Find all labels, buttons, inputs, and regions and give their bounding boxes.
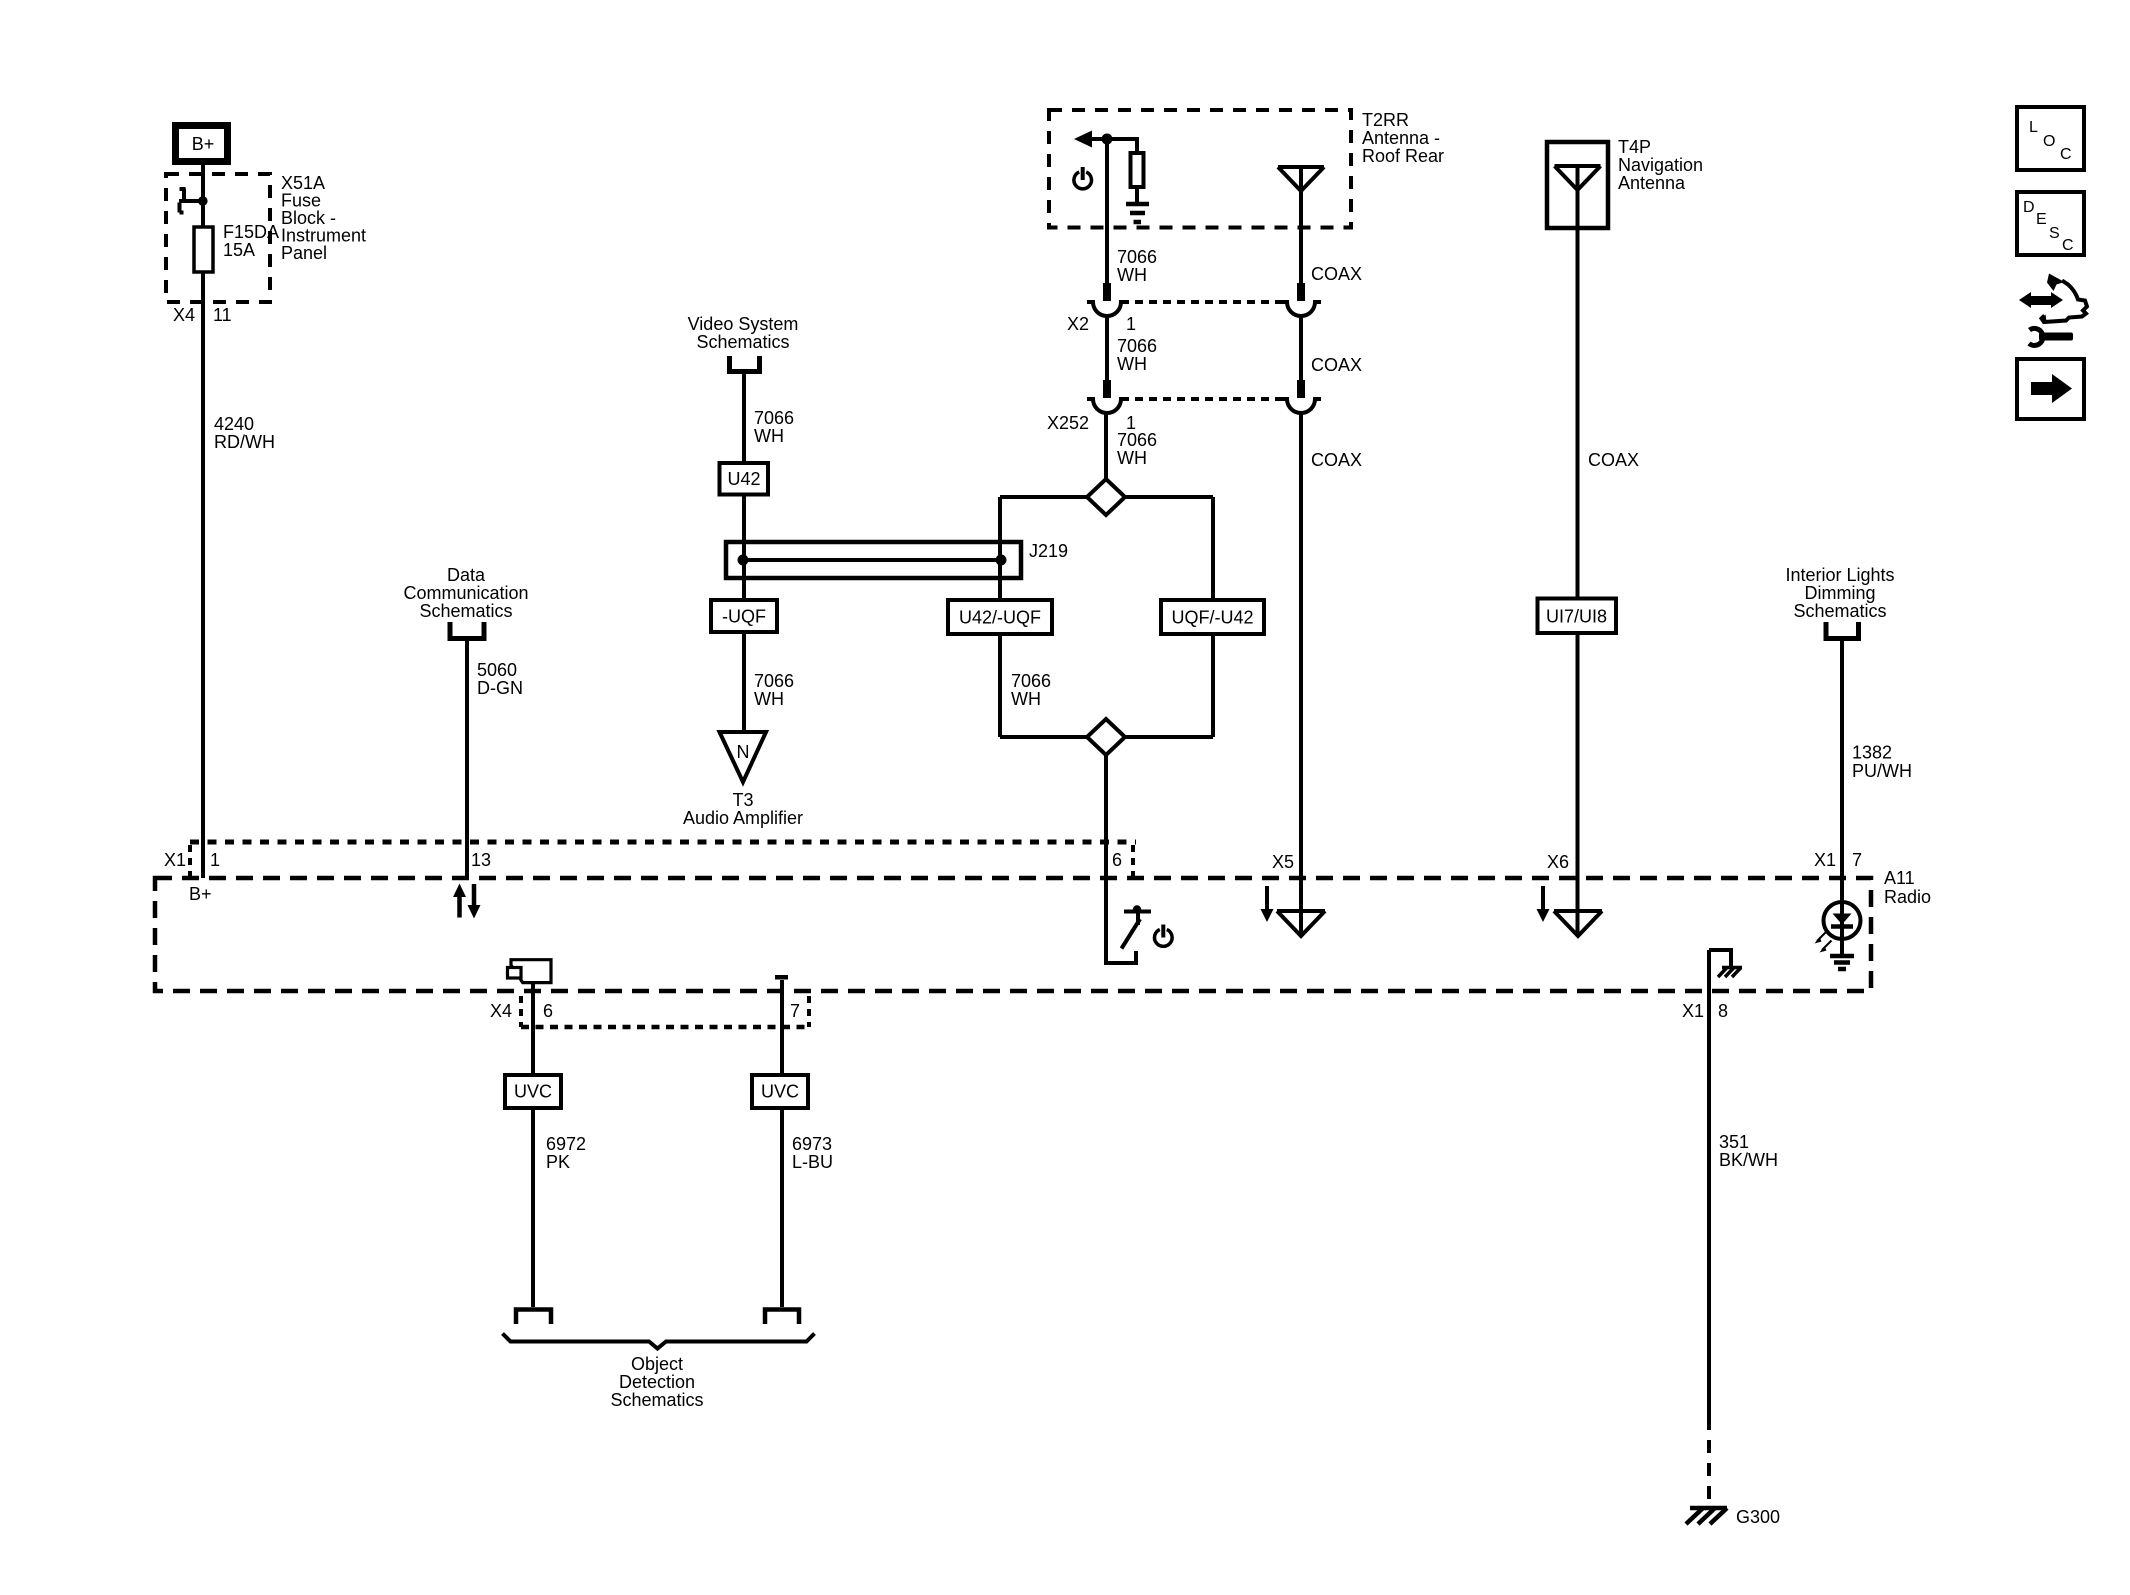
svg-text:WH: WH bbox=[754, 689, 784, 709]
svg-text:D-GN: D-GN bbox=[477, 678, 523, 698]
svg-text:11: 11 bbox=[213, 305, 232, 325]
svg-text:Video System: Video System bbox=[688, 314, 799, 334]
svg-text:E: E bbox=[2036, 211, 2047, 228]
svg-text:Navigation: Navigation bbox=[1618, 155, 1703, 175]
svg-text:L-BU: L-BU bbox=[792, 1152, 833, 1172]
svg-text:7: 7 bbox=[790, 1001, 800, 1021]
svg-text:Roof Rear: Roof Rear bbox=[1362, 146, 1444, 166]
svg-text:351: 351 bbox=[1719, 1132, 1749, 1152]
svg-text:UQF/-U42: UQF/-U42 bbox=[1171, 608, 1253, 628]
svg-text:X4: X4 bbox=[173, 305, 195, 325]
svg-text:Data: Data bbox=[447, 565, 486, 585]
svg-text:COAX: COAX bbox=[1311, 355, 1362, 375]
svg-text:UVC: UVC bbox=[761, 1082, 799, 1102]
svg-text:X1: X1 bbox=[164, 850, 186, 870]
svg-text:T2RR: T2RR bbox=[1362, 110, 1409, 130]
svg-text:8: 8 bbox=[1718, 1001, 1728, 1021]
svg-text:WH: WH bbox=[1117, 354, 1147, 374]
svg-text:7066: 7066 bbox=[754, 408, 794, 428]
svg-text:Interior Lights: Interior Lights bbox=[1785, 565, 1894, 585]
svg-text:15A: 15A bbox=[223, 240, 255, 260]
svg-text:D: D bbox=[2023, 199, 2035, 216]
svg-text:COAX: COAX bbox=[1311, 264, 1362, 284]
svg-text:U42/-UQF: U42/-UQF bbox=[959, 608, 1041, 628]
svg-text:6973: 6973 bbox=[792, 1134, 832, 1154]
svg-text:UI7/UI8: UI7/UI8 bbox=[1546, 607, 1607, 627]
svg-text:6972: 6972 bbox=[546, 1134, 586, 1154]
svg-text:7066: 7066 bbox=[1117, 247, 1157, 267]
svg-text:7066: 7066 bbox=[1011, 671, 1051, 691]
svg-text:T3: T3 bbox=[732, 790, 753, 810]
svg-text:1: 1 bbox=[210, 850, 220, 870]
svg-text:WH: WH bbox=[1117, 265, 1147, 285]
svg-text:PU/WH: PU/WH bbox=[1852, 761, 1912, 781]
svg-text:C: C bbox=[2060, 146, 2072, 163]
svg-text:X2: X2 bbox=[1067, 314, 1089, 334]
svg-text:UVC: UVC bbox=[514, 1082, 552, 1102]
svg-text:6: 6 bbox=[543, 1001, 553, 1021]
svg-text:G300: G300 bbox=[1736, 1507, 1780, 1527]
svg-text:7: 7 bbox=[1852, 850, 1862, 870]
svg-text:Detection: Detection bbox=[619, 1372, 695, 1392]
svg-text:Schematics: Schematics bbox=[1793, 601, 1886, 621]
svg-text:7066: 7066 bbox=[754, 671, 794, 691]
svg-text:COAX: COAX bbox=[1311, 450, 1362, 470]
svg-text:Schematics: Schematics bbox=[610, 1390, 703, 1410]
svg-text:A11: A11 bbox=[1884, 868, 1915, 888]
svg-text:Audio Amplifier: Audio Amplifier bbox=[683, 808, 803, 828]
svg-text:B+: B+ bbox=[189, 884, 212, 904]
svg-text:X6: X6 bbox=[1547, 852, 1569, 872]
svg-text:WH: WH bbox=[1011, 689, 1041, 709]
svg-text:Dimming: Dimming bbox=[1804, 583, 1875, 603]
svg-text:13: 13 bbox=[471, 850, 491, 870]
svg-text:Schematics: Schematics bbox=[696, 332, 789, 352]
svg-text:T4P: T4P bbox=[1618, 137, 1651, 157]
svg-text:Panel: Panel bbox=[281, 243, 327, 263]
svg-text:Object: Object bbox=[631, 1354, 683, 1374]
svg-text:Antenna -: Antenna - bbox=[1362, 128, 1440, 148]
svg-text:BK/WH: BK/WH bbox=[1719, 1150, 1778, 1170]
svg-text:1: 1 bbox=[1126, 314, 1136, 334]
svg-text:6: 6 bbox=[1112, 850, 1122, 870]
svg-text:RD/WH: RD/WH bbox=[214, 432, 275, 452]
svg-text:5060: 5060 bbox=[477, 660, 517, 680]
svg-text:C: C bbox=[2062, 237, 2074, 254]
svg-text:S: S bbox=[2049, 225, 2060, 242]
svg-text:PK: PK bbox=[546, 1152, 570, 1172]
svg-text:X4: X4 bbox=[490, 1001, 512, 1021]
svg-text:Radio: Radio bbox=[1884, 887, 1931, 907]
svg-text:-UQF: -UQF bbox=[722, 607, 766, 627]
svg-text:1382: 1382 bbox=[1852, 743, 1892, 763]
svg-text:4240: 4240 bbox=[214, 414, 254, 434]
svg-text:COAX: COAX bbox=[1588, 450, 1639, 470]
svg-text:O: O bbox=[2043, 133, 2055, 150]
svg-text:B+: B+ bbox=[192, 134, 215, 154]
svg-text:7066: 7066 bbox=[1117, 336, 1157, 356]
svg-text:Schematics: Schematics bbox=[419, 601, 512, 621]
svg-text:J219: J219 bbox=[1029, 541, 1068, 561]
svg-text:7066: 7066 bbox=[1117, 430, 1157, 450]
svg-text:WH: WH bbox=[754, 426, 784, 446]
svg-text:N: N bbox=[737, 742, 750, 762]
svg-text:X1: X1 bbox=[1814, 850, 1836, 870]
svg-text:Communication: Communication bbox=[403, 583, 528, 603]
svg-text:L: L bbox=[2029, 119, 2038, 136]
svg-text:X5: X5 bbox=[1272, 852, 1294, 872]
svg-text:WH: WH bbox=[1117, 448, 1147, 468]
svg-text:X1: X1 bbox=[1682, 1001, 1704, 1021]
svg-text:Antenna: Antenna bbox=[1618, 173, 1686, 193]
svg-text:X252: X252 bbox=[1047, 413, 1089, 433]
svg-text:U42: U42 bbox=[727, 469, 760, 489]
svg-text:F15DA: F15DA bbox=[223, 222, 279, 242]
